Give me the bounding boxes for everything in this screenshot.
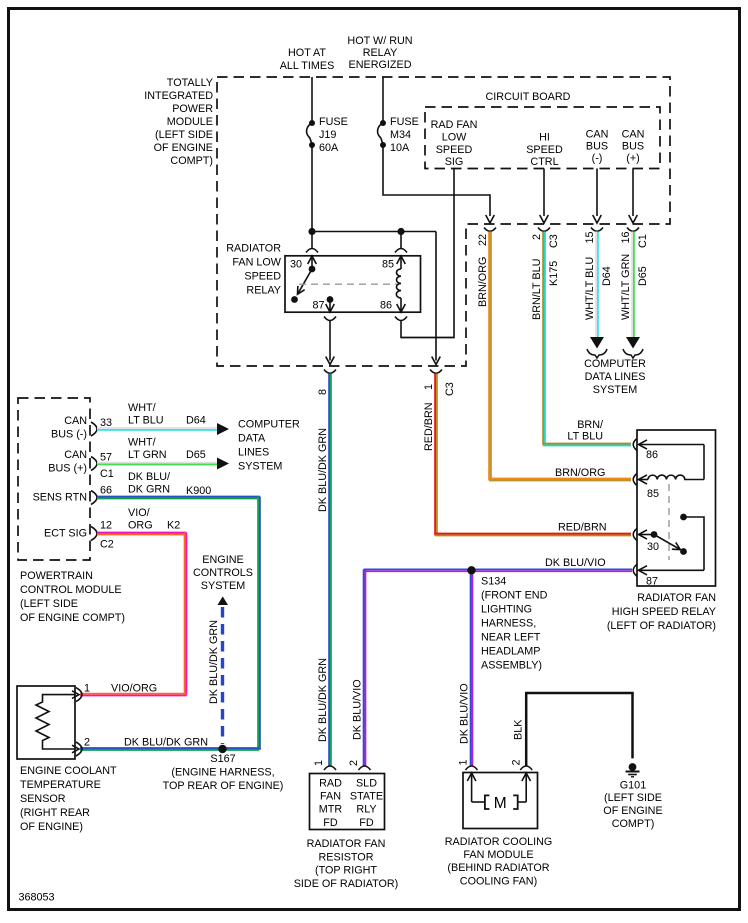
wire LS relay 87 to pin 8 <box>329 321 331 361</box>
radiator fan low speed relay U1 <box>285 256 421 312</box>
wire CAN BUS (+) to pin 16 <box>632 169 634 217</box>
svg-text:ALL TIMES: ALL TIMES <box>280 60 335 72</box>
svg-text:(RIGHT REAR: (RIGHT REAR <box>20 807 90 819</box>
svg-text:K900: K900 <box>186 485 211 497</box>
svg-text:87: 87 <box>646 576 658 588</box>
brace computer data lines <box>587 349 607 358</box>
svg-text:WHT/LT BLU: WHT/LT BLU <box>584 257 596 320</box>
svg-text:1: 1 <box>423 384 435 390</box>
svg-text:S134: S134 <box>481 576 506 588</box>
pin 87 LS relay <box>327 296 334 303</box>
svg-text:SENS RTN: SENS RTN <box>33 492 87 504</box>
svg-text:WHT/: WHT/ <box>128 437 156 449</box>
svg-text:OF ENGINE: OF ENGINE <box>603 805 662 817</box>
svg-text:CAN: CAN <box>586 129 609 141</box>
pin 85 LS relay <box>395 249 407 253</box>
svg-text:COMPT): COMPT) <box>612 818 655 830</box>
svg-text:CAN: CAN <box>64 415 87 427</box>
pin 85 HS relay and coil <box>633 474 637 486</box>
svg-text:ASSEMBLY): ASSEMBLY) <box>481 660 542 672</box>
svg-text:(ENGINE HARNESS,: (ENGINE HARNESS, <box>171 767 274 779</box>
circuit board dashed box <box>425 107 660 169</box>
pin 1 connector C3 output <box>430 370 442 374</box>
fuse M34 10A <box>380 120 386 126</box>
wire BRN/ORG pin 22 to HS relay 85 <box>488 232 490 481</box>
svg-text:D64: D64 <box>186 415 206 427</box>
svg-text:BUS (+): BUS (+) <box>48 463 87 475</box>
wire junction to LS relay 85 <box>400 232 402 249</box>
svg-text:MODULE: MODULE <box>167 116 213 128</box>
fan motor M <box>472 801 485 803</box>
svg-text:LINES: LINES <box>238 447 269 459</box>
svg-text:1: 1 <box>84 683 90 695</box>
svg-text:FD: FD <box>359 817 374 829</box>
TIPM module dashed outline <box>217 77 670 366</box>
PCM dashed box <box>18 398 90 560</box>
svg-text:66: 66 <box>100 485 112 497</box>
svg-text:(TOP RIGHT: (TOP RIGHT <box>315 865 377 877</box>
svg-text:M: M <box>494 795 507 812</box>
svg-text:COMPUTER: COMPUTER <box>584 358 646 370</box>
svg-text:ECT SIG: ECT SIG <box>44 528 87 540</box>
svg-text:POWER: POWER <box>172 103 213 115</box>
svg-text:87: 87 <box>313 300 325 312</box>
svg-text:SIDE OF RADIATOR): SIDE OF RADIATOR) <box>294 878 399 890</box>
svg-text:DK BLU/VIO: DK BLU/VIO <box>545 557 606 569</box>
svg-text:S167: S167 <box>210 753 235 765</box>
LS relay mech link <box>299 283 397 285</box>
svg-text:ENGINE: ENGINE <box>202 554 243 566</box>
svg-text:VIO/ORG: VIO/ORG <box>111 683 157 695</box>
svg-text:VIO/: VIO/ <box>128 507 150 519</box>
svg-text:RESISTOR: RESISTOR <box>319 852 374 864</box>
svg-text:30: 30 <box>290 259 302 271</box>
svg-text:TEMPERATURE: TEMPERATURE <box>20 779 101 791</box>
svg-text:DK BLU/: DK BLU/ <box>128 471 170 483</box>
svg-text:(LEFT SIDE: (LEFT SIDE <box>604 792 662 804</box>
data line arrowhead <box>626 337 640 349</box>
svg-text:K175: K175 <box>548 261 560 286</box>
svg-text:10A: 10A <box>390 142 410 154</box>
svg-text:D64: D64 <box>601 266 613 286</box>
pin 16 connector C1 <box>627 228 639 232</box>
svg-text:(BEHIND RADIATOR: (BEHIND RADIATOR <box>447 862 549 874</box>
svg-text:C2: C2 <box>100 539 114 551</box>
svg-text:CIRCUIT BOARD: CIRCUIT BOARD <box>486 91 571 103</box>
wire DK BLU/VIO S134 bus <box>363 569 365 766</box>
pin 12 PCM C2 <box>91 527 97 541</box>
svg-text:BUS: BUS <box>622 141 644 153</box>
svg-text:22: 22 <box>477 234 489 246</box>
fan module pin 2 <box>520 766 532 770</box>
svg-text:15: 15 <box>584 231 596 243</box>
pin 22 connector <box>484 228 496 232</box>
wire feed to pin 1 C3 <box>435 232 437 361</box>
splice S167 <box>218 745 226 753</box>
svg-text:NEAR LEFT: NEAR LEFT <box>481 632 541 644</box>
svg-text:D65: D65 <box>637 266 649 286</box>
sensor thermistor <box>36 695 75 749</box>
fan module pin 1 <box>466 766 478 770</box>
svg-text:1: 1 <box>313 760 325 766</box>
wire LS relay 86 to SIG <box>401 321 454 338</box>
svg-text:COOLING FAN): COOLING FAN) <box>460 876 537 888</box>
svg-text:DK BLU/DK GRN: DK BLU/DK GRN <box>317 658 329 742</box>
radiator cooling fan module <box>463 773 538 829</box>
svg-text:(LEFT OF RADIATOR): (LEFT OF RADIATOR) <box>607 620 716 632</box>
svg-text:368053: 368053 <box>19 892 55 904</box>
svg-text:(LEFT SIDE: (LEFT SIDE <box>155 129 213 141</box>
pin 86 LS relay <box>400 305 402 312</box>
svg-text:C1: C1 <box>100 468 114 480</box>
svg-text:RELAY: RELAY <box>246 285 281 297</box>
svg-text:POWERTRAIN: POWERTRAIN <box>20 570 93 582</box>
svg-text:SENSOR: SENSOR <box>20 793 66 805</box>
sensor pin 2 <box>76 742 82 756</box>
svg-text:1: 1 <box>458 759 470 765</box>
svg-text:LT BLU: LT BLU <box>567 431 603 443</box>
sensor pin 1 <box>76 688 82 702</box>
fuse J19 60A <box>309 120 315 126</box>
svg-text:CAN: CAN <box>64 449 87 461</box>
svg-text:BUS: BUS <box>586 141 608 153</box>
svg-text:DK GRN: DK GRN <box>128 484 170 496</box>
svg-text:LOW: LOW <box>442 132 467 144</box>
svg-text:RLY: RLY <box>356 804 376 816</box>
ground G101 <box>629 763 637 771</box>
wire fuse J19 to relay feed junction <box>311 145 313 232</box>
svg-text:12: 12 <box>100 520 112 532</box>
svg-text:BRN/LT BLU: BRN/LT BLU <box>531 259 543 320</box>
wire ignition feed to fuse M34 <box>382 77 384 123</box>
svg-text:OF ENGINE COMPT): OF ENGINE COMPT) <box>20 612 125 624</box>
svg-text:M34: M34 <box>390 129 411 141</box>
wire CAN BUS (-) to pin 15 <box>596 169 598 217</box>
svg-text:RAD FAN: RAD FAN <box>431 119 478 131</box>
pin 8 connector <box>324 370 336 374</box>
svg-text:LT GRN: LT GRN <box>128 449 167 461</box>
svg-text:BUS (-): BUS (-) <box>51 429 87 441</box>
svg-text:ENERGIZED: ENERGIZED <box>349 59 412 71</box>
wire VIO/ORG K2 ECT sig <box>97 532 186 534</box>
svg-text:FD: FD <box>323 817 338 829</box>
svg-text:86: 86 <box>646 449 658 461</box>
svg-text:DK BLU/DK GRN: DK BLU/DK GRN <box>208 620 220 704</box>
svg-text:WHT/: WHT/ <box>128 402 156 414</box>
svg-text:OF ENGINE): OF ENGINE) <box>20 821 83 833</box>
svg-text:85: 85 <box>647 488 659 500</box>
svg-text:2: 2 <box>348 760 360 766</box>
pin 57 PCM C1 <box>91 457 97 471</box>
svg-text:SPEED: SPEED <box>526 144 563 156</box>
wire BLK fan module to ground <box>525 693 528 766</box>
svg-text:TOP REAR OF ENGINE): TOP REAR OF ENGINE) <box>163 780 284 792</box>
LS relay coil <box>396 269 401 298</box>
HS relay mech link <box>668 484 670 560</box>
svg-text:HOT W/ RUN: HOT W/ RUN <box>347 35 412 47</box>
wire RED/BRN pin 1 to HS relay 30 <box>434 374 436 536</box>
wire battery feed to fuse J19 <box>311 77 313 123</box>
wire relay feed bus <box>312 231 436 233</box>
svg-text:SLD: SLD <box>356 778 377 790</box>
svg-text:60A: 60A <box>319 142 339 154</box>
svg-text:J19: J19 <box>319 129 336 141</box>
resistor pin 2 <box>359 766 371 770</box>
wire WHT/LT GRN D65 CAN(+) <box>97 462 217 464</box>
svg-text:HOT AT: HOT AT <box>288 47 326 59</box>
svg-text:SPEED: SPEED <box>244 271 281 283</box>
svg-text:(FRONT END: (FRONT END <box>481 590 548 602</box>
svg-text:SPEED: SPEED <box>436 144 473 156</box>
svg-text:ORG: ORG <box>128 520 153 532</box>
svg-text:FAN: FAN <box>320 791 341 803</box>
wire WHT/LT GRN CAN bus (+) D65 <box>631 232 633 338</box>
svg-text:RED/BRN: RED/BRN <box>423 402 435 451</box>
resistor pin 1 <box>324 766 336 770</box>
pin 33 PCM <box>91 422 97 436</box>
svg-text:2: 2 <box>511 759 523 765</box>
svg-text:BRN/: BRN/ <box>577 419 603 431</box>
svg-text:30: 30 <box>647 541 659 553</box>
svg-text:RADIATOR FAN: RADIATOR FAN <box>307 838 386 850</box>
wire HI SPEED CTRL to pin 2 <box>543 169 545 217</box>
svg-text:CAN: CAN <box>622 129 645 141</box>
svg-text:(-): (-) <box>592 153 603 165</box>
svg-text:CTRL: CTRL <box>530 156 558 168</box>
svg-text:RADIATOR COOLING: RADIATOR COOLING <box>445 836 553 848</box>
wire WHT/LT BLU CAN bus (-) D64 <box>595 232 597 338</box>
engine coolant temperature sensor <box>17 686 75 759</box>
svg-text:DK BLU/DK GRN: DK BLU/DK GRN <box>317 428 329 512</box>
svg-text:RADIATOR FAN: RADIATOR FAN <box>637 592 716 604</box>
dashed wire DK BLU/DK GRN to engine controls <box>221 607 224 744</box>
svg-text:DATA: DATA <box>238 433 266 445</box>
svg-text:85: 85 <box>382 259 394 271</box>
svg-text:BLK: BLK <box>513 719 525 740</box>
svg-text:8: 8 <box>317 389 329 395</box>
svg-text:RED/BRN: RED/BRN <box>558 522 607 534</box>
svg-text:INTEGRATED: INTEGRATED <box>144 90 213 102</box>
svg-text:SIG: SIG <box>445 156 464 168</box>
svg-text:(+): (+) <box>626 153 640 165</box>
svg-text:FUSE: FUSE <box>390 116 419 128</box>
svg-text:G101: G101 <box>620 780 646 792</box>
pin 2 connector C3 <box>538 228 550 232</box>
splice S134 <box>467 566 475 574</box>
svg-text:BRN/ORG: BRN/ORG <box>477 257 489 307</box>
pin 30 LS relay <box>306 249 318 253</box>
HS relay 87 contact <box>680 514 687 521</box>
svg-text:(LEFT SIDE: (LEFT SIDE <box>20 598 78 610</box>
pin 87 HS relay <box>633 564 637 576</box>
svg-text:ENGINE COOLANT: ENGINE COOLANT <box>20 765 117 777</box>
svg-text:BRN/ORG: BRN/ORG <box>555 467 605 479</box>
svg-text:2: 2 <box>84 737 90 749</box>
data line arrowhead <box>590 337 604 349</box>
svg-text:K2: K2 <box>167 520 180 532</box>
svg-text:DATA LINES: DATA LINES <box>585 371 646 383</box>
wire RAD FAN LOW SPEED SIG output <box>401 169 454 338</box>
radiator fan high speed relay U2 <box>637 430 716 586</box>
svg-text:D65: D65 <box>186 449 206 461</box>
pin 30 HS relay switch <box>633 529 637 541</box>
svg-text:SYSTEM: SYSTEM <box>593 384 637 396</box>
svg-text:LIGHTING: LIGHTING <box>481 604 532 616</box>
svg-text:FUSE: FUSE <box>319 116 348 128</box>
wire junction to LS relay 30 <box>311 232 313 249</box>
svg-text:HARNESS,: HARNESS, <box>481 618 536 630</box>
svg-text:C1: C1 <box>637 234 649 248</box>
svg-text:DK BLU/VIO: DK BLU/VIO <box>352 679 364 740</box>
svg-text:C3: C3 <box>444 382 456 396</box>
engine controls arrowhead <box>218 596 229 605</box>
svg-text:SYSTEM: SYSTEM <box>238 461 282 473</box>
svg-text:HIGH SPEED RELAY: HIGH SPEED RELAY <box>612 606 716 618</box>
wire DK BLU/DK GRN pin 8 to resistor <box>328 374 330 767</box>
svg-text:STATE: STATE <box>350 791 383 803</box>
svg-text:HEADLAMP: HEADLAMP <box>481 646 540 658</box>
svg-text:C3: C3 <box>548 234 560 248</box>
pin 86 HS relay <box>633 439 637 451</box>
svg-text:CONTROLS: CONTROLS <box>193 567 253 579</box>
svg-text:COMPUTER: COMPUTER <box>238 419 300 431</box>
svg-text:FAN MODULE: FAN MODULE <box>463 849 533 861</box>
svg-text:CONTROL MODULE: CONTROL MODULE <box>20 584 122 596</box>
radiator fan resistor <box>310 774 385 830</box>
wire WHT/LT BLU D64 CAN(-) <box>97 427 217 429</box>
svg-text:HI: HI <box>539 132 550 144</box>
svg-text:OF ENGINE: OF ENGINE <box>154 142 213 154</box>
svg-text:LT BLU: LT BLU <box>128 415 164 427</box>
svg-text:DK BLU/DK GRN: DK BLU/DK GRN <box>124 737 208 749</box>
svg-text:16: 16 <box>620 231 632 243</box>
LS relay switch <box>309 266 316 273</box>
svg-text:DK BLU/VIO: DK BLU/VIO <box>459 683 471 744</box>
svg-text:RADIATOR: RADIATOR <box>226 243 281 255</box>
svg-text:RELAY: RELAY <box>363 47 398 59</box>
wire fuse M34 to pin 22 <box>383 145 490 216</box>
svg-text:2: 2 <box>531 234 543 240</box>
wire BRN/LT BLU pin 2 to HS relay 86 (K175) <box>542 232 544 446</box>
svg-text:WHT/LT GRN: WHT/LT GRN <box>620 254 632 320</box>
pin 66 PCM <box>91 491 97 505</box>
svg-text:TOTALLY: TOTALLY <box>167 77 213 89</box>
svg-text:86: 86 <box>380 300 392 312</box>
pin 15 connector <box>591 228 603 232</box>
svg-text:SYSTEM: SYSTEM <box>201 580 245 592</box>
svg-text:FAN LOW: FAN LOW <box>232 257 281 269</box>
wire DK BLU/DK GRN K900 sens rtn <box>97 496 260 498</box>
svg-text:COMPT): COMPT) <box>170 155 213 167</box>
svg-text:RAD: RAD <box>319 778 342 790</box>
svg-text:MTR: MTR <box>319 804 343 816</box>
